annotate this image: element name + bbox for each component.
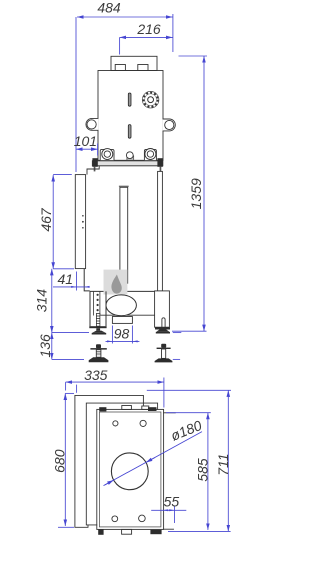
dim 585 top extension [166,412,211,414]
top black tab left [99,407,106,411]
top second tab [142,406,149,409]
bottom middle tab [122,529,132,534]
dim 41 extension [76,272,78,291]
dim 55 right extension [174,506,176,524]
svg-text:98: 98 [114,326,130,342]
top middle tab [122,406,132,410]
flange end block left [92,158,97,167]
flame shape [111,275,121,294]
dim 98 left extension [111,326,113,344]
dim 467 bottom extension [53,268,74,270]
diameter leader line [104,432,203,486]
plan small hole bottom-right [139,515,146,522]
dim 711 line [227,390,229,531]
svg-text:41: 41 [58,271,74,287]
step from flange to door [87,166,99,175]
body outer rect [97,409,164,529]
base bottom line [101,314,155,316]
left foot base [92,328,107,334]
svg-text:216: 216 [136,21,161,37]
svg-text:335: 335 [84,367,108,383]
bracket small center circle [126,152,133,159]
roller circle left [102,149,113,160]
rear stub bottom [164,528,174,530]
dim 55 line [151,509,186,511]
dim 467 line [52,175,54,269]
roller bracket hump right [144,149,156,160]
dim 711 top extension [147,389,231,391]
dim 98 right extension [131,326,133,344]
knurl hatching ring [144,93,158,107]
base shelf line [90,290,156,292]
rear wall column [158,171,163,291]
dim 136 top extension [52,332,89,334]
svg-text:101: 101 [74,133,97,149]
dim 1359 bottom extension [172,330,207,332]
column rivet dots [97,294,99,312]
mounting flange band [92,158,162,171]
bottom black tab left [98,529,103,534]
bottom black tab right [150,530,161,534]
flange stub right [160,167,162,172]
dim 41 arrows [71,286,138,343]
right foot plate [155,327,170,329]
top black tab right [148,407,157,411]
left foot plate [89,326,106,328]
dim 101 line [76,148,98,150]
dim 55 arrows [163,509,175,511]
cap notch right [138,65,148,71]
dim 1359 line [203,56,205,331]
left lower column [90,291,106,326]
knob center hole [148,97,154,103]
dim 136 bottom extension [52,358,84,360]
dim 467 top extension [53,173,72,175]
dim 484/216 right extension [172,14,174,52]
dim 585 line [207,413,209,530]
vent slot lower [128,125,131,139]
plan small hole bottom-left [112,516,118,522]
dim 98 arrows [107,340,112,342]
svg-text:680: 680 [51,449,67,473]
body inner wall [99,412,160,527]
dim 680 bottom tick [58,526,74,528]
shared bottom extension 585/711 [168,530,231,532]
lower front step edge [84,269,90,291]
left anchor bolt [89,344,109,362]
front door panel [75,175,85,269]
flue collar cap on top [111,56,157,70]
dim 484 line [77,16,173,18]
dim 484 left extension [75,17,77,172]
ground dash right at feet [173,332,182,334]
roller circle right [145,149,156,160]
dim 98 line [106,340,140,342]
svg-text:1359: 1359 [188,178,204,209]
svg-text:136: 136 [37,334,53,358]
middle column [120,187,128,283]
dim 335 mid extension [76,385,78,393]
dim 680 line [64,393,66,526]
dim 216 left extension [119,37,121,54]
right foot base [156,330,170,334]
flange stub left [94,167,96,172]
svg-text:585: 585 [195,458,211,482]
left mounting ear [86,118,98,130]
dim 136 line [51,333,53,360]
dim 101 right extension [97,144,99,156]
svg-text:55: 55 [164,494,180,510]
diameter leader arrow upper [146,458,155,463]
right foot screw stem [162,318,165,327]
svg-text:484: 484 [97,0,121,16]
flue circle d180 [111,453,148,490]
dim 314 line [51,269,53,333]
fan pedestal [112,317,132,324]
right anchor bolt [155,344,173,363]
dim 1359 top extension [179,55,208,57]
cap notch left [115,65,125,71]
right mounting ear [163,119,176,131]
roller bracket hump left [100,149,114,160]
plan small hole top-left [113,421,118,426]
back plate outline [75,395,143,527]
burn pot gray block [104,270,128,295]
dim 335 left extension [65,382,67,390]
svg-text:467: 467 [38,207,54,232]
center pedestal block [127,156,134,160]
svg-text:711: 711 [215,453,231,475]
rear stub top [164,412,176,414]
svg-text:314: 314 [33,289,49,313]
dim 216 line [120,36,173,38]
casing outline [86,403,157,525]
fan volute [106,295,136,316]
vent slot upper [128,93,131,106]
diameter leader arrow lower [105,480,114,485]
door hinge dots [82,215,84,229]
left foot screw [96,314,100,327]
middle column top cap [119,185,129,187]
plan small hole top-right [140,420,146,426]
knurled round knob: outer ring [142,91,159,108]
flue box right [155,291,170,327]
dim 335 right extension [163,378,165,408]
flange end block right [157,158,162,167]
dim 41 line [53,286,90,288]
ground dash right at anchors [173,358,180,360]
upper body outline [98,71,163,161]
dim 335 line [66,381,164,383]
dim 680 top extension [65,392,74,394]
